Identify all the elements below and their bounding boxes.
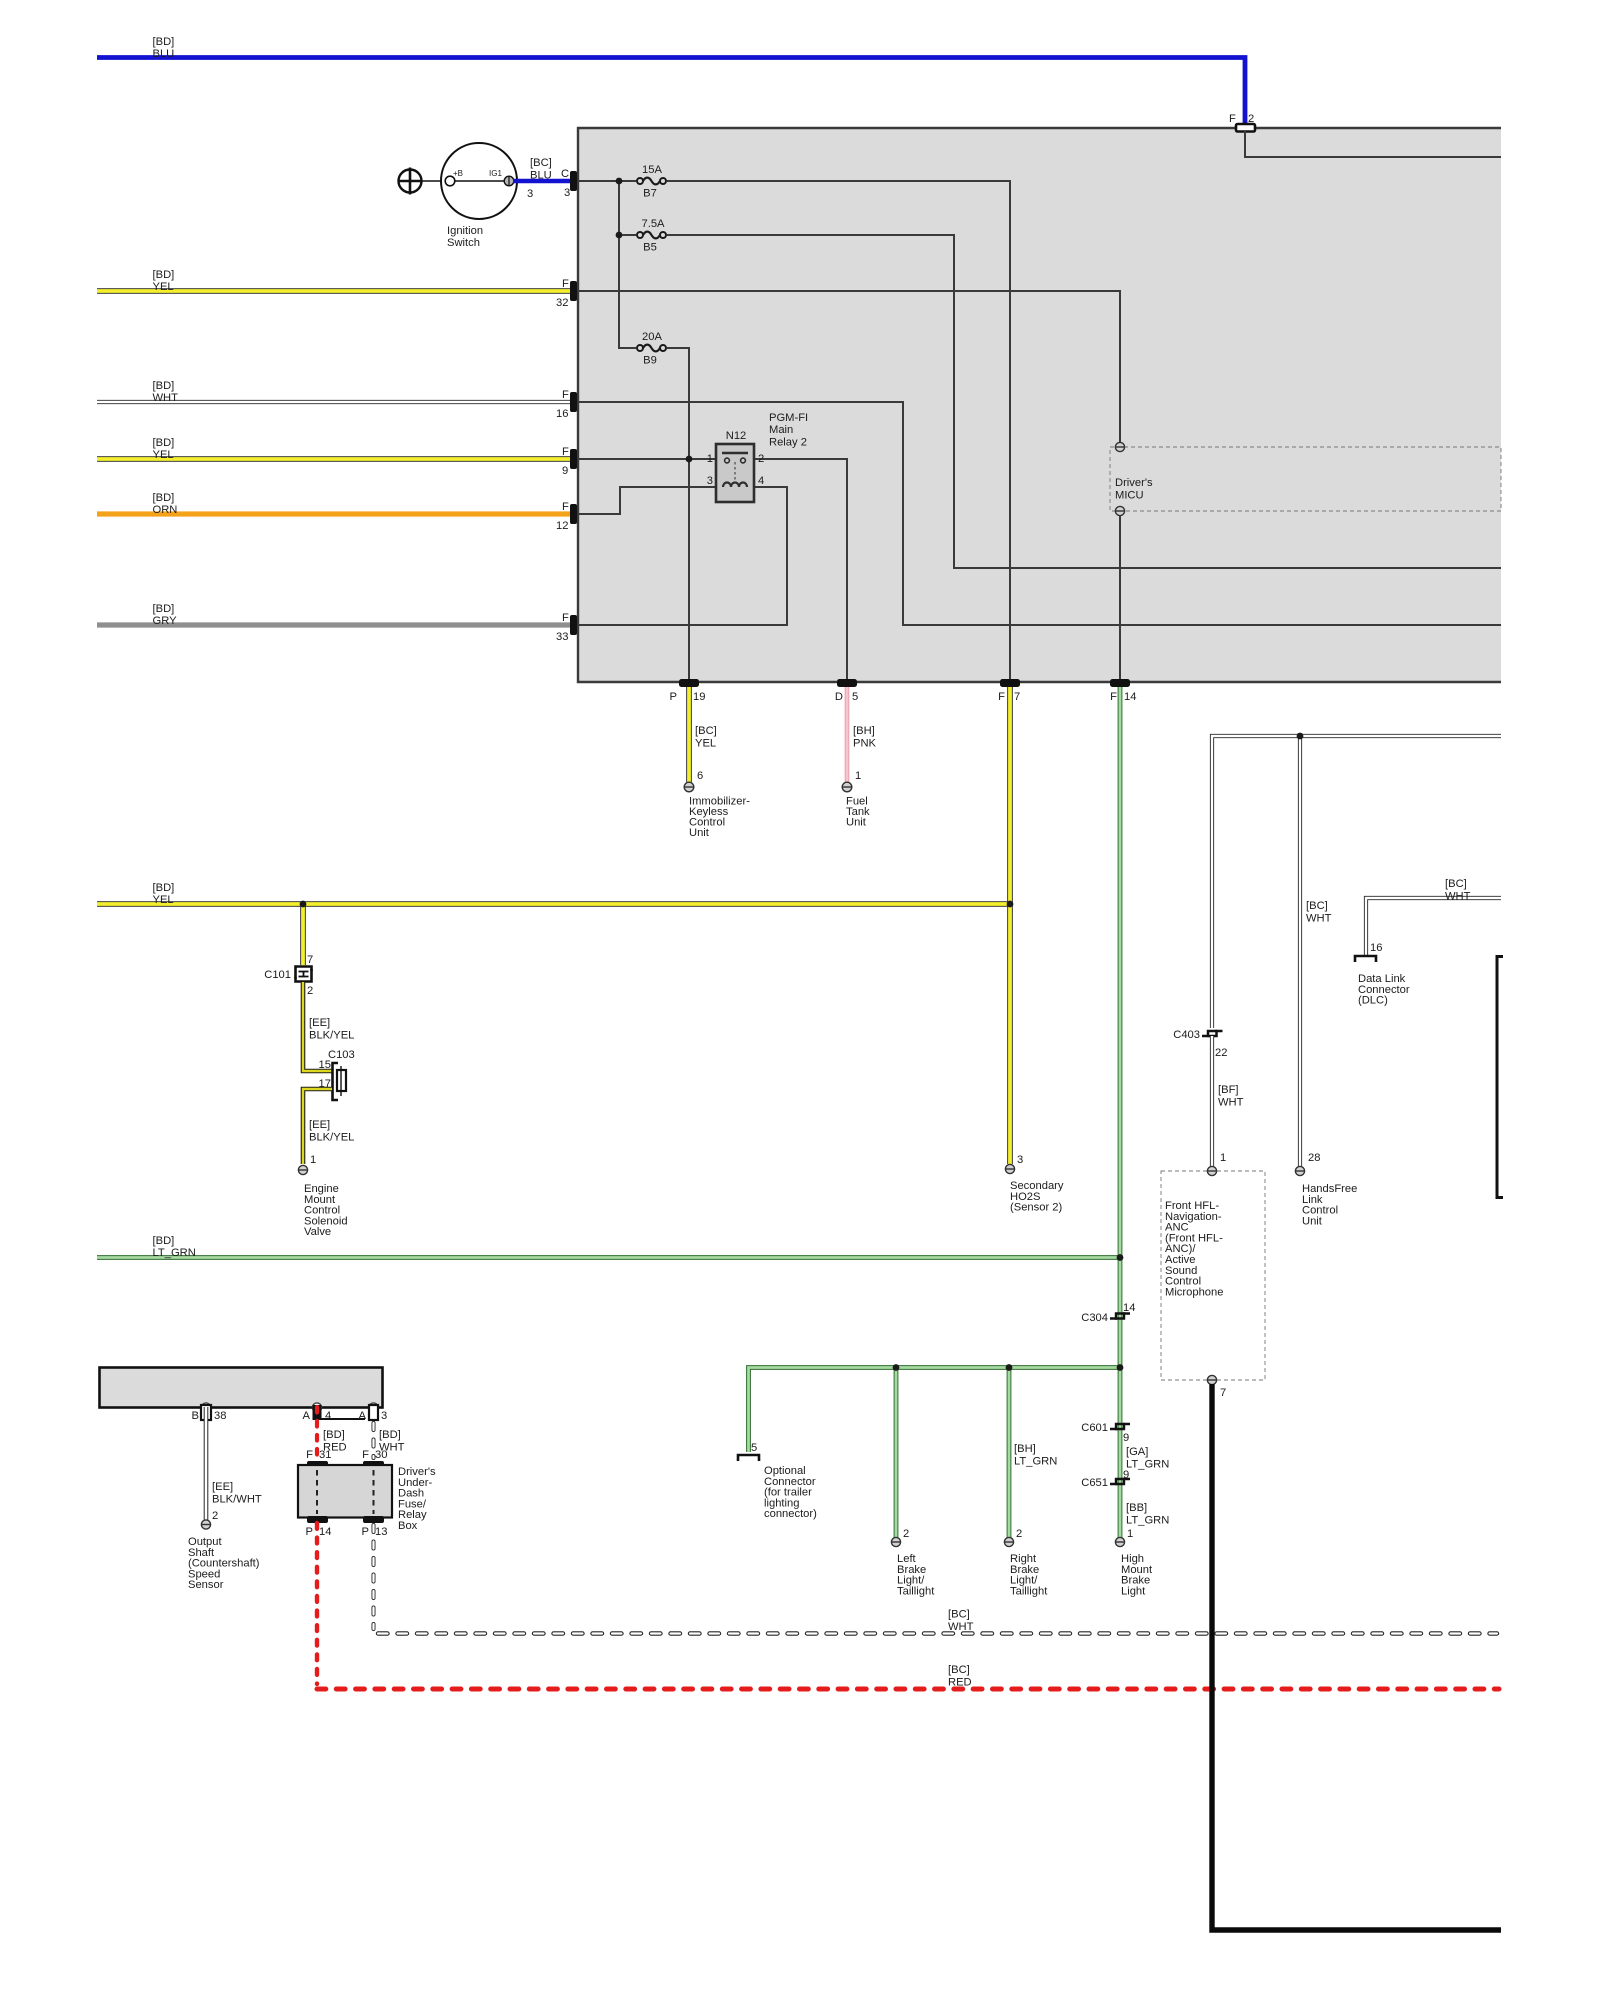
connector F 7 (box bottom) (998, 679, 1020, 703)
engine mount valve terminal (298, 1165, 307, 1174)
svg-text:Microphone: Microphone (1165, 1286, 1223, 1298)
svg-text:F: F (562, 612, 569, 624)
svg-text:C403: C403 (1173, 1029, 1200, 1041)
svg-text:3: 3 (707, 475, 713, 487)
wire F12 to relay pin3 (577, 487, 716, 514)
svg-text:3: 3 (564, 187, 570, 199)
svg-text:1: 1 (855, 770, 861, 782)
svg-text:LT_GRN: LT_GRN (1126, 1514, 1169, 1526)
connector C403 (1173, 1029, 1227, 1059)
battery symbol (398, 168, 423, 195)
svg-text:GRY: GRY (153, 615, 178, 627)
svg-text:3: 3 (527, 188, 533, 200)
svg-text:[BD]: [BD] (153, 269, 175, 281)
ground/black wire from HFL pin 7 (1212, 1384, 1501, 1930)
svg-text:F: F (362, 1449, 369, 1461)
component bracket (right edge, partial box) (1497, 957, 1503, 1198)
svg-text:5: 5 (852, 691, 858, 703)
fuse B9 20A (637, 331, 666, 367)
svg-text:2: 2 (1016, 1528, 1022, 1540)
connector C304 (1081, 1302, 1135, 1324)
connector F 14 (box bottom) (1110, 679, 1136, 703)
wire [BC] RED P14 dashed down and right (317, 1523, 1499, 1689)
svg-text:7: 7 (307, 954, 313, 966)
wire LT_GRN to left brake light (894, 1368, 899, 1539)
svg-text:C651: C651 (1081, 1477, 1108, 1489)
svg-text:P: P (670, 691, 677, 703)
junction dot (1117, 1364, 1124, 1371)
wire F33 to relay pin4 (577, 487, 787, 625)
wire YEL F7 down to HO2S (1007, 687, 1013, 1164)
svg-text:F: F (1229, 113, 1236, 125)
svg-text:Taillight: Taillight (897, 1585, 935, 1597)
svg-text:15A: 15A (642, 164, 662, 176)
svg-text:YEL: YEL (695, 737, 716, 749)
connector C103 (319, 1049, 355, 1100)
wire [BD] RED A4 to F31 (dashed) (317, 1407, 347, 1459)
svg-text:F: F (562, 446, 569, 458)
svg-text:2: 2 (212, 1510, 218, 1522)
svg-text:16: 16 (556, 408, 568, 420)
connector F 12 (556, 501, 577, 532)
wire [BC] WHT to handsfree link (1300, 736, 1332, 1166)
wire [BC] WHT horizontal bus (right) (1212, 736, 1501, 1028)
svg-text:+B: +B (453, 169, 463, 178)
svg-text:D: D (835, 691, 843, 703)
svg-text:32: 32 (556, 297, 568, 309)
lower-left gray component box (100, 1368, 383, 1408)
connector A 3 (359, 1405, 388, 1422)
svg-text:F: F (562, 278, 569, 290)
svg-text:C601: C601 (1081, 1422, 1108, 1434)
wire LT_GRN F14 vertical (to high mount brake light) (1118, 687, 1123, 1538)
connector P 19 (box bottom) (670, 679, 706, 703)
svg-text:(DLC): (DLC) (1358, 995, 1388, 1007)
svg-text:[BD]: [BD] (379, 1429, 401, 1441)
HO2S terminal (1005, 1164, 1014, 1173)
connector F 32 (556, 278, 577, 309)
svg-text:2: 2 (1248, 113, 1254, 125)
svg-text:[EE]: [EE] (309, 1017, 330, 1029)
svg-text:ORN: ORN (153, 504, 178, 516)
svg-text:5: 5 (751, 1442, 757, 1454)
fuel tank terminal (842, 782, 852, 792)
svg-text:A: A (359, 1410, 367, 1422)
svg-text:B: B (192, 1410, 199, 1422)
svg-text:20A: 20A (642, 331, 662, 343)
svg-text:WHT: WHT (1306, 912, 1332, 924)
MICU terminal (bottom) (1115, 506, 1124, 515)
svg-text:Unit: Unit (689, 827, 710, 839)
svg-text:Light: Light (1121, 1585, 1146, 1597)
junction dot (893, 1364, 900, 1371)
svg-text:Unit: Unit (846, 817, 867, 829)
svg-text:BLK/YEL: BLK/YEL (309, 1029, 354, 1041)
handsfree terminal (1295, 1166, 1304, 1175)
wire [BH] PNK D5 to fuel tank unit (847, 687, 877, 782)
connector F 9 (562, 446, 577, 477)
wire [BD] LT_GRN horizontal (97, 1235, 1120, 1259)
svg-text:12: 12 (556, 520, 568, 532)
wire [EE] BLK/WHT B38 to speed sensor (206, 1407, 262, 1520)
svg-text:F: F (998, 691, 1005, 703)
wire [BD] YEL horizontal (engine mount feed) (97, 882, 1010, 906)
svg-text:WHT: WHT (948, 1621, 974, 1633)
wire [BF] WHT C403 to HFL mic (1212, 1036, 1244, 1166)
svg-text:15: 15 (319, 1059, 331, 1071)
svg-text:WHT: WHT (1445, 890, 1471, 902)
svg-text:Ignition: Ignition (447, 225, 483, 237)
connector C101 (264, 954, 313, 997)
connector P 14 (306, 1516, 332, 1538)
connector C651 (1081, 1477, 1130, 1489)
wire [BC] BLU ignition IG1 to C3 (513, 157, 571, 200)
svg-text:14: 14 (319, 1526, 331, 1538)
svg-text:7: 7 (1220, 1387, 1226, 1399)
wire [BD] WHT A3 to F30 (dashed) (374, 1423, 405, 1458)
svg-text:[GA]: [GA] (1126, 1446, 1148, 1458)
left brake light label (897, 1553, 935, 1597)
wire [BD] GRY (to F33) (97, 603, 571, 627)
connector C601 (1081, 1422, 1130, 1444)
svg-text:BLU: BLU (153, 48, 175, 60)
svg-text:Box: Box (398, 1520, 418, 1532)
junction dot (616, 178, 623, 185)
driver's MICU (dashed box) (1110, 447, 1501, 511)
svg-text:[BD]: [BD] (153, 380, 175, 392)
svg-text:7: 7 (1014, 691, 1020, 703)
connector F 30 (362, 1449, 387, 1468)
data link connector symbol (1355, 956, 1410, 1007)
connector D 5 (box bottom) (835, 679, 858, 703)
svg-text:(Sensor 2): (Sensor 2) (1010, 1202, 1063, 1214)
wire [BD] WHT (to F16) (97, 380, 571, 404)
junction dot (1117, 1254, 1124, 1261)
connector A 4 (303, 1405, 332, 1422)
svg-text:1: 1 (310, 1154, 316, 1166)
wire 15A B7 branch (inside box) (577, 181, 1010, 682)
svg-text:C304: C304 (1081, 1312, 1108, 1324)
wire YEL drop to C101 (300, 904, 306, 965)
svg-text:C101: C101 (264, 969, 291, 981)
svg-text:Driver's: Driver's (1115, 477, 1153, 489)
secondary HO2S label (1010, 1180, 1064, 1214)
wire 7.5A B5 branch (622, 234, 636, 236)
svg-text:9: 9 (1123, 1432, 1129, 1444)
svg-text:1: 1 (1127, 1528, 1133, 1540)
wire from F2 inside box (1245, 131, 1501, 157)
svg-text:2: 2 (307, 985, 313, 997)
MICU terminal (top) (1115, 442, 1124, 451)
engine mount control solenoid valve label (304, 1183, 348, 1238)
svg-text:B5: B5 (643, 242, 657, 254)
svg-text:Valve: Valve (304, 1226, 331, 1238)
svg-text:14: 14 (1123, 1302, 1135, 1314)
svg-text:3: 3 (1017, 1154, 1023, 1166)
svg-text:[BC]: [BC] (530, 157, 552, 169)
wire [BC] YEL P19 to immobilizer (689, 687, 717, 782)
svg-text:[BB]: [BB] (1126, 1502, 1147, 1514)
wire F16 path (inside box) (577, 402, 1501, 625)
svg-text:PGM-FI: PGM-FI (769, 412, 808, 424)
junction dot (1007, 901, 1014, 908)
svg-text:28: 28 (1308, 1152, 1320, 1164)
wire battery to ignition switch (421, 180, 446, 182)
svg-text:1: 1 (707, 453, 713, 465)
svg-text:F: F (562, 389, 569, 401)
svg-text:IG1: IG1 (489, 169, 502, 178)
svg-text:B7: B7 (643, 188, 657, 200)
immobilizer terminal (684, 782, 694, 792)
green brake light bus horizontal (749, 1368, 1121, 1453)
HFL terminal 1 (top) (1207, 1166, 1216, 1175)
svg-text:YEL: YEL (153, 449, 174, 461)
connector C 3 (box left edge) (561, 168, 577, 199)
junction dot (686, 456, 693, 463)
svg-text:connector): connector) (764, 1508, 817, 1520)
svg-text:BLU: BLU (530, 170, 552, 182)
svg-text:B9: B9 (643, 355, 657, 367)
wire [BD] YEL (to F32) (97, 269, 571, 293)
terminal bump A4 (312, 1403, 321, 1412)
svg-text:[BD]: [BD] (153, 1235, 175, 1247)
connector F 33 (556, 612, 577, 643)
terminal bump B38 (201, 1403, 210, 1412)
junction dot (300, 901, 307, 908)
svg-text:F: F (1110, 691, 1117, 703)
svg-text:16: 16 (1370, 942, 1382, 954)
svg-text:MICU: MICU (1115, 489, 1144, 501)
fuel tank unit label (846, 796, 870, 829)
[BB] LT_GRN label (1126, 1502, 1169, 1526)
svg-text:A: A (303, 1410, 311, 1422)
svg-text:13: 13 (375, 1526, 387, 1538)
wire MICU to F14 (inside box) (1119, 515, 1121, 682)
svg-text:4: 4 (325, 1410, 331, 1422)
svg-text:Relay 2: Relay 2 (769, 436, 807, 448)
wire relay pin2 to D5 (754, 459, 847, 682)
svg-text:[BD]: [BD] (153, 437, 175, 449)
svg-text:[BC]: [BC] (1445, 878, 1467, 890)
junction dot (1006, 1364, 1013, 1371)
right brake terminal (1004, 1537, 1013, 1546)
ignition switch (441, 143, 517, 249)
svg-text:19: 19 (693, 691, 705, 703)
svg-text:BLK/YEL: BLK/YEL (309, 1131, 354, 1143)
svg-text:F: F (306, 1449, 313, 1461)
wire [EE] BLK/YEL C103 to valve (303, 1089, 354, 1164)
svg-text:P: P (306, 1526, 313, 1538)
front HFL dashed box (1161, 1171, 1265, 1380)
svg-text:Main: Main (769, 424, 793, 436)
fuse B7 15A (637, 164, 666, 200)
connector B 38 (192, 1405, 227, 1422)
svg-text:14: 14 (1124, 691, 1136, 703)
svg-text:C: C (561, 168, 569, 180)
fuse B5 7.5A (637, 218, 666, 254)
svg-text:31: 31 (319, 1449, 331, 1461)
svg-text:[BH]: [BH] (1014, 1443, 1036, 1455)
svg-text:4: 4 (758, 475, 764, 487)
svg-text:1: 1 (1220, 1152, 1226, 1164)
terminal bump A3 (369, 1403, 378, 1412)
high mount terminal (1115, 1537, 1124, 1546)
svg-text:[BC]: [BC] (695, 725, 717, 737)
wire 20A B9 branch (667, 348, 689, 682)
svg-text:YEL: YEL (153, 281, 174, 293)
svg-text:LT_GRN: LT_GRN (1014, 1455, 1057, 1467)
svg-text:F: F (562, 501, 569, 513)
svg-text:Sensor: Sensor (188, 1579, 224, 1591)
svg-text:7.5A: 7.5A (641, 218, 665, 230)
svg-text:6: 6 (697, 770, 703, 782)
svg-text:[BF]: [BF] (1218, 1084, 1239, 1096)
connector F 16 (556, 389, 577, 420)
svg-text:Switch: Switch (447, 237, 480, 249)
optional connector symbol (738, 1442, 817, 1520)
immobilizer-keyless control unit label (689, 796, 750, 840)
wire [BC] WHT to DLC (1366, 878, 1501, 956)
svg-text:Taillight: Taillight (1010, 1585, 1048, 1597)
handsfree link control unit label (1302, 1183, 1357, 1227)
svg-text:2: 2 (903, 1528, 909, 1540)
speed sensor terminal (201, 1520, 210, 1529)
right brake light label (1010, 1553, 1048, 1597)
svg-text:LT_GRN: LT_GRN (153, 1247, 196, 1259)
svg-text:33: 33 (556, 631, 568, 643)
HFL terminal 7 (bottom) (1207, 1375, 1216, 1384)
svg-text:3: 3 (381, 1410, 387, 1422)
svg-text:30: 30 (375, 1449, 387, 1461)
svg-text:BLK/WHT: BLK/WHT (212, 1493, 262, 1505)
svg-text:RED: RED (948, 1676, 972, 1688)
svg-text:[BD]: [BD] (153, 492, 175, 504)
svg-text:[BC]: [BC] (948, 1609, 970, 1621)
wire [BD] ORN (to F12) (97, 492, 571, 516)
wire [BD] BLU (battery feed, top) (97, 36, 1245, 129)
high mount brake light label (1121, 1553, 1153, 1597)
svg-text:[BD]: [BD] (153, 882, 175, 894)
svg-text:22: 22 (1215, 1047, 1227, 1059)
svg-text:[EE]: [EE] (212, 1481, 233, 1493)
junction dot (616, 232, 623, 239)
svg-text:WHT: WHT (1218, 1096, 1244, 1108)
svg-text:[BD]: [BD] (153, 603, 175, 615)
svg-text:9: 9 (562, 465, 568, 477)
svg-text:PNK: PNK (853, 737, 877, 749)
svg-text:YEL: YEL (153, 894, 174, 906)
[GA] LT_GRN label (1126, 1446, 1169, 1470)
connector F 31 (306, 1449, 331, 1468)
svg-text:[BC]: [BC] (948, 1664, 970, 1676)
left brake terminal (891, 1537, 900, 1546)
wire [BD] YEL (to F9) (97, 437, 571, 461)
wire [BC] WHT P13 dashed down and right (374, 1525, 1498, 1634)
driver's under-dash fuse/relay box (298, 1465, 436, 1532)
connector P 13 (362, 1516, 388, 1538)
output shaft speed sensor label (188, 1536, 260, 1591)
svg-text:[BD]: [BD] (323, 1429, 345, 1441)
wire [EE] BLK/YEL C101 to C103 (303, 982, 354, 1071)
svg-text:C103: C103 (328, 1049, 355, 1061)
bracket between A4 and A3 (321, 1418, 365, 1420)
svg-text:P: P (362, 1526, 369, 1538)
wire F9 to relay pin1 (577, 458, 716, 460)
svg-text:[EE]: [EE] (309, 1119, 330, 1131)
junction dot (1297, 733, 1304, 740)
under-dash fuse/relay box (main gray block) (578, 128, 1501, 682)
connector F 2 (top of box) (1229, 113, 1255, 132)
wire [BH] LT_GRN to right brake light (1009, 1368, 1057, 1539)
svg-text:2: 2 (758, 453, 764, 465)
svg-text:WHT: WHT (153, 392, 179, 404)
svg-text:[BC]: [BC] (1306, 900, 1328, 912)
svg-text:LT_GRN: LT_GRN (1126, 1458, 1169, 1470)
wire F32 to driver's MICU (inside box) (577, 291, 1120, 447)
svg-text:Unit: Unit (1302, 1215, 1323, 1227)
svg-text:[BH]: [BH] (853, 725, 875, 737)
svg-text:N12: N12 (726, 430, 747, 442)
relay N12 PGM-FI Main Relay 2 (707, 412, 808, 502)
svg-text:[BD]: [BD] (153, 36, 175, 48)
svg-text:38: 38 (214, 1410, 226, 1422)
